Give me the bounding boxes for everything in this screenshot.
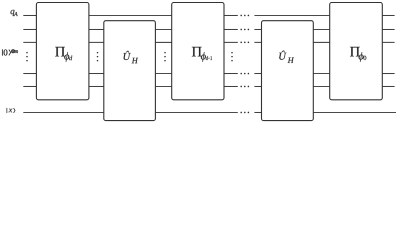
gate label U_H second bbox=[279, 51, 294, 63]
wire qA register bbox=[23, 14, 394, 16]
gate label Pi_phi_0 bbox=[350, 47, 366, 62]
vdots between Pi_d and U_H bbox=[97, 52, 99, 62]
gate box U_H second bbox=[262, 21, 314, 121]
gate box Pi_phi_0 bbox=[330, 3, 383, 100]
wire ancilla m bbox=[23, 85, 394, 87]
vdots right of Pi_d-1 bbox=[231, 52, 233, 62]
wire ancilla 1 bbox=[23, 28, 394, 30]
gate box U_H first bbox=[104, 21, 156, 121]
gate box Pi_phi_d bbox=[36, 3, 89, 100]
wire ancilla m-1 bbox=[23, 73, 394, 75]
gate label Pi_phi_d-1 bbox=[192, 47, 212, 62]
label ket 0 tensor m bbox=[2, 49, 18, 55]
vdots between U_H and Pi_d-1 bbox=[164, 52, 166, 62]
wire ancilla 2 bbox=[23, 41, 394, 43]
wire input register bbox=[23, 111, 396, 113]
label qubit qA bbox=[11, 10, 18, 16]
cdots ellipsis on wires between boxes bbox=[240, 15, 249, 114]
vdots left of box Pi_d bbox=[26, 52, 28, 62]
label ket x input state bbox=[7, 108, 16, 113]
gate box Pi_phi_d-1 bbox=[172, 3, 224, 100]
gate label U_H first bbox=[124, 51, 139, 63]
gate label Pi_phi_d bbox=[55, 47, 72, 62]
